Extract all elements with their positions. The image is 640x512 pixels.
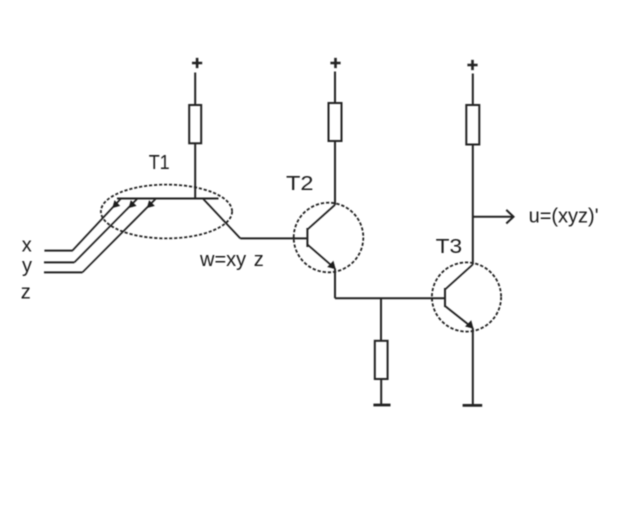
svg-text:T1: T1	[149, 152, 170, 174]
T1 base bar	[117, 198, 219, 200]
T1 emitter 3	[83, 199, 157, 273]
T2 collector wire up	[334, 141, 336, 205]
input wire z	[44, 271, 83, 273]
output arrow wire	[473, 216, 513, 218]
T3 emitter line	[445, 306, 473, 328]
T1 emitter 2 arrowhead	[129, 201, 136, 208]
ground 2	[463, 404, 483, 407]
T3 emitter arrowhead	[466, 321, 473, 328]
T2 collector line	[307, 205, 335, 230]
output arrowhead	[506, 210, 513, 224]
transistor T3 circle	[432, 262, 501, 331]
input wire y	[44, 261, 74, 263]
resistor R1	[189, 105, 201, 143]
power plus 2	[330, 58, 340, 68]
wire	[194, 143, 196, 198]
svg-text:z: z	[21, 282, 31, 304]
ground 1	[373, 404, 390, 407]
svg-text:T2: T2	[286, 173, 314, 195]
T2 emitter wire down	[334, 269, 336, 299]
transistor T1 ellipse	[101, 185, 232, 239]
T1 collector diagonal	[203, 199, 240, 238]
svg-text:T3: T3	[436, 236, 463, 258]
T1 emitter 1	[73, 199, 122, 251]
T3 collector wire up	[472, 145, 474, 265]
wire	[194, 73, 196, 106]
input wire x	[44, 250, 72, 252]
resistor R4	[375, 341, 388, 379]
T2 base bar	[306, 228, 308, 247]
resistor R2	[329, 103, 342, 141]
T2 emitter arrowhead	[328, 262, 335, 269]
power plus 1	[192, 58, 202, 68]
wire	[380, 379, 382, 404]
svg-text:w=xy z: w=xy z	[199, 249, 264, 271]
resistor R3	[466, 105, 479, 145]
power plus 3	[467, 60, 477, 70]
wire	[334, 72, 336, 104]
wire emitter node to T3 base	[335, 297, 445, 299]
T1 emitter 1 arrowhead	[113, 201, 120, 208]
T3 emitter wire down	[472, 328, 474, 405]
svg-text:y: y	[22, 255, 32, 277]
T2 emitter line	[307, 245, 335, 269]
T3 base bar	[444, 288, 446, 307]
svg-text:u=(xyz)': u=(xyz)'	[529, 205, 599, 227]
T3 collector line	[445, 265, 473, 290]
wire	[472, 74, 474, 106]
wire junction down to R4	[380, 298, 382, 341]
T1 emitter 3 arrowhead	[148, 201, 155, 208]
transistor T2 circle	[294, 203, 364, 273]
wire node w to T2 base	[240, 237, 307, 239]
T1 emitter 2	[74, 199, 137, 263]
svg-text:x: x	[22, 235, 32, 257]
